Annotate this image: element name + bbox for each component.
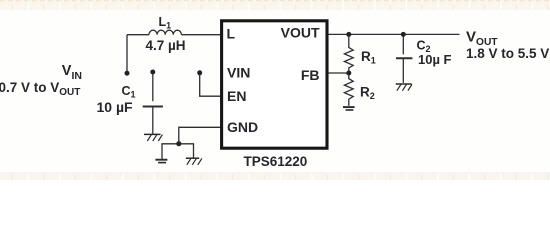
svg-text:10 µF: 10 µF <box>97 99 134 115</box>
resistor R2 <box>344 73 353 106</box>
ground earth under R2 <box>343 106 355 108</box>
svg-text:GND: GND <box>227 119 258 135</box>
decorative top band <box>0 0 550 10</box>
svg-text:1.8 V to 5.5 V: 1.8 V to 5.5 V <box>466 46 549 61</box>
svg-text:4.7 µH: 4.7 µH <box>146 38 186 53</box>
ground chassis under C2 <box>396 83 412 85</box>
wire input rail left vertical <box>126 35 128 73</box>
inductor L1 <box>149 30 181 35</box>
wire GND pin <box>179 127 221 143</box>
node FB junction dot <box>346 71 351 76</box>
ground chassis under C1 <box>144 133 161 135</box>
ground chassis bottom-right <box>186 157 199 159</box>
decorative bottom band <box>0 173 550 180</box>
resistor R1 <box>344 34 353 73</box>
svg-text:FB: FB <box>301 67 320 83</box>
wire inductor to L pin <box>181 34 220 36</box>
node VIN input terminal dot <box>125 71 130 76</box>
svg-text:L: L <box>227 26 236 42</box>
node EN/VIN stub dot <box>197 70 202 75</box>
wire gnd junction to right chassis <box>179 144 194 158</box>
wire EN elbow to VIN stub <box>200 73 221 96</box>
svg-text:TPS61220: TPS61220 <box>244 154 308 169</box>
svg-text:EN: EN <box>227 88 246 104</box>
ground earth bottom-left <box>155 159 167 161</box>
node C1 top dot <box>150 70 155 75</box>
node GND junction dot <box>176 141 181 146</box>
svg-text:10µ F: 10µ F <box>418 52 452 67</box>
node VOUT/C2 dot <box>401 32 406 37</box>
op-amp style IC box TPS61220 U1 <box>222 21 327 148</box>
wire gnd junction to left earth <box>162 144 179 159</box>
wire VOUT rail <box>328 33 460 35</box>
wire rail to inductor <box>127 34 149 36</box>
node VOUT/R1 dot <box>346 32 351 37</box>
svg-text:VIN: VIN <box>227 65 250 81</box>
capacitor C1 <box>152 72 154 101</box>
svg-text:VOUT: VOUT <box>281 25 320 41</box>
wire FB <box>328 72 349 74</box>
capacitor C2 <box>402 34 404 54</box>
